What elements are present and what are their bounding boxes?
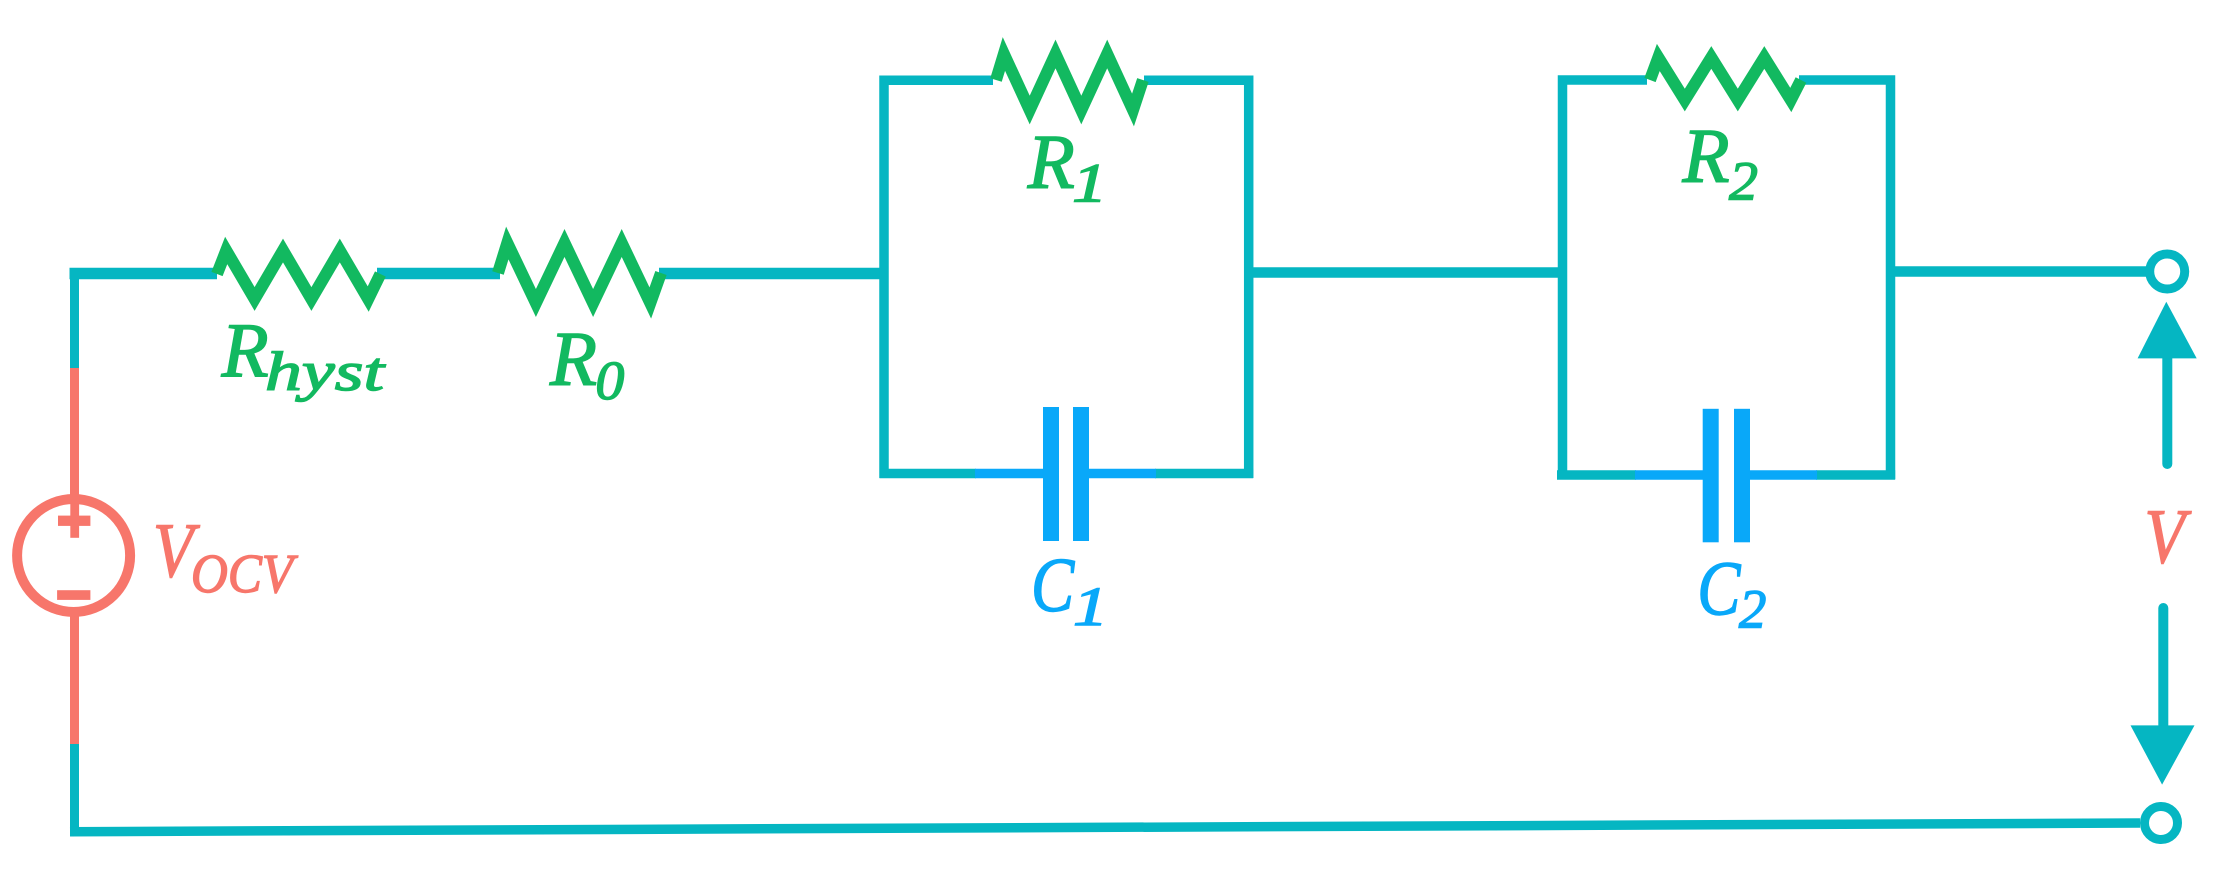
capacitor C2 right lead (blue): [1748, 470, 1817, 480]
svg-text:0: 0: [595, 350, 624, 411]
svg-text:R: R: [549, 316, 597, 402]
RC1 box bottom-right teal wire: [1155, 469, 1253, 479]
RC2 box bottom-left teal wire: [1557, 470, 1636, 480]
capacitor C2 left lead (blue): [1635, 470, 1704, 480]
svg-text:2: 2: [1729, 151, 1758, 212]
capacitor C1 left lead (blue): [975, 469, 1045, 479]
arrow V up head: [2138, 302, 2197, 359]
label C1: [1031, 544, 1076, 628]
RC1 box top-right and right wire: [1144, 80, 1249, 478]
terminal positive (open circle): [2150, 254, 2185, 289]
arrow V up shaft: [2162, 358, 2172, 464]
label Vocv: [153, 508, 200, 594]
wire left vertical teal lower: [70, 744, 79, 836]
wire between R0 and RC1 block: [659, 268, 888, 280]
label C2: [1697, 547, 1742, 631]
resistor R2: [1650, 58, 1801, 101]
svg-text:V: V: [2145, 494, 2192, 580]
resistor R1: [996, 54, 1143, 110]
wire RC2 to positive output terminal: [1886, 266, 2147, 277]
RC2 box bottom-right teal wire: [1816, 470, 1895, 480]
svg-text:R: R: [1682, 113, 1730, 199]
arrow V down head: [2131, 725, 2195, 784]
terminal negative (open circle): [2145, 807, 2178, 840]
Vocv minus sign: [57, 590, 90, 600]
label V (output voltage): [2145, 494, 2192, 580]
wire bottom rail: [70, 823, 2140, 832]
wire between Rhyst and R0: [377, 268, 500, 280]
svg-text:R: R: [221, 307, 269, 393]
arrow V down shaft: [2158, 608, 2168, 725]
svg-text:hyst: hyst: [265, 341, 386, 402]
wire top-left segment (node A: Vocv+ to Rhyst): [70, 268, 218, 280]
wire Vocv negative lead (salmon): [70, 611, 79, 744]
RC1 box bottom-left teal wire: [880, 469, 977, 479]
svg-text:C: C: [1697, 547, 1742, 631]
RC1 box left and top-left wire: [884, 80, 993, 478]
capacitor C2 plates: [1703, 409, 1750, 543]
RC2 box top-right and right wire: [1799, 80, 1891, 479]
capacitor C1 plates: [1043, 407, 1089, 541]
svg-text:2: 2: [1739, 579, 1767, 640]
capacitor C1 right lead (blue): [1087, 469, 1156, 479]
wire between RC1 and RC2 blocks: [1244, 267, 1567, 278]
resistor Rhyst: [217, 251, 380, 300]
RC2 box left and top-left wire: [1563, 80, 1648, 479]
wire left vertical teal upper: [70, 268, 79, 368]
svg-text:OCV: OCV: [191, 543, 298, 604]
Vocv plus sign: [58, 504, 90, 538]
voltage source Vocv circle: [17, 499, 130, 612]
svg-text:1: 1: [1073, 576, 1108, 637]
svg-text:C: C: [1031, 544, 1076, 628]
resistor R0: [498, 243, 661, 303]
svg-text:R: R: [1027, 119, 1075, 205]
svg-text:1: 1: [1072, 153, 1107, 214]
wire Vocv positive lead (salmon): [70, 368, 79, 500]
